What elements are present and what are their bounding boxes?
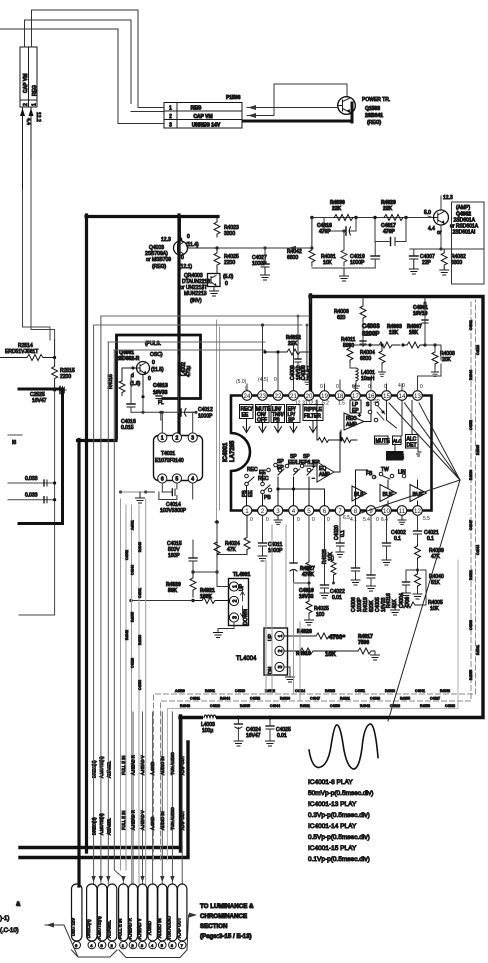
svg-text:A.HEAD V: A.HEAD V [137,918,142,939]
svg-text:1000P: 1000P [198,414,213,420]
wire connector to P1506 row2 (CAP VM) [25,20,132,104]
svg-text:SP: SP [373,399,380,405]
resistor R4016 (rotated) [386,593,398,608]
svg-text:0: 0 [312,517,315,523]
svg-text:0.1Vp-p(0.5msec.div): 0.1Vp-p(0.5msec.div) [308,856,370,863]
capacitor 0.033 (upper) [8,476,56,486]
IC internal MUTE box [375,436,391,445]
svg-text:0.3Vp-p(0.5msec.div): 0.3Vp-p(0.5msec.div) [308,812,370,819]
label PULSE OSC [116,341,163,362]
svg-text:DREC(H): DREC(H) [92,817,97,835]
svg-text:R4065: R4065 [240,704,250,708]
svg-text:2SD601AI: 2SD601AI [453,230,476,236]
svg-text:A.HEAD R: A.HEAD R [131,755,136,775]
connector pill A.AF OUT [177,884,187,949]
capacitor C4018 470P [317,218,356,236]
coil L4001 [350,368,375,390]
svg-text:R4065: R4065 [476,445,480,455]
svg-text:1.5: 1.5 [338,401,345,407]
wire row1 stub [138,107,164,109]
svg-text:1000P: 1000P [350,260,365,266]
resistor R4019 (rotated) [363,597,375,612]
svg-text:3300: 3300 [224,231,235,237]
svg-text:R4044: R4044 [469,370,473,380]
svg-text:6: 6 [323,508,327,515]
resistor R4011 [341,337,356,368]
svg-text:4: 4 [191,477,194,483]
bracket group1 with left arrow [45,923,117,958]
IC internal REC AMP triangle [344,401,371,431]
svg-text:13: 13 [414,393,421,400]
svg-text:R4036: R4036 [138,635,142,645]
shield net tick labels right column [469,320,480,680]
capacitor C4005 (rotated) [351,516,387,613]
IC internal block REC/EE [240,405,254,433]
svg-text:(11.4): (11.4) [186,242,199,248]
svg-text:ALC: ALC [393,439,402,444]
svg-text:2SB841: 2SB841 [365,113,383,119]
resistor R4025b 100 [305,583,329,625]
wire from CAP VM pin 2 down with arrow [20,107,31,190]
svg-text:2: 2 [233,599,239,602]
svg-text:1000P: 1000P [268,548,283,554]
capacitor C4020 (rotated) [334,516,346,558]
svg-text:AT/ASEL: AT/ASEL [106,920,111,938]
capacitor C4013 [141,375,168,407]
svg-text:(INV): (INV) [190,298,202,304]
IC top pins 24-13 [242,391,422,401]
shield net tick labels row1 [175,689,455,708]
arrowheads into pills [91,876,174,882]
svg-text:C4023: C4023 [476,345,480,355]
svg-text:E1070F0140: E1070F0140 [155,458,184,464]
IC internal switch cluster pins3-5 with SP/EP labels [276,454,324,506]
ground under pin 3 [274,516,282,525]
IC internal ALC box [393,436,402,445]
svg-text:1: 1 [169,106,172,112]
svg-text:EE: EE [248,490,254,497]
ground below QR4003 [210,287,219,297]
resistor R4015 [108,368,133,396]
svg-text:C4047: C4047 [469,520,473,530]
svg-text:REG: REG [32,85,38,96]
svg-text:24: 24 [244,393,251,400]
svg-text:UNREG 14V: UNREG 14V [192,123,221,129]
svg-text:REC: REC [247,467,258,473]
svg-text:1: 1 [233,585,239,588]
svg-text:0: 0 [327,517,330,523]
svg-text:51K: 51K [431,580,441,586]
svg-text:0: 0 [152,360,155,366]
svg-text:R4026: R4026 [297,629,312,635]
svg-text:180P: 180P [168,553,180,559]
svg-text:C4039: C4039 [235,689,245,693]
IC internal EQ AMP triangle [305,432,340,482]
svg-text:C4056: C4056 [330,704,340,708]
svg-text:A.HEAD R: A.HEAD R [128,918,133,939]
filter bottom rail + ground [312,268,375,281]
resistor R2514 [0,340,56,361]
svg-text:I6: I6 [12,440,16,446]
wire from REG pin 1 down with arrow [29,107,42,160]
svg-text:C4031: C4031 [138,588,142,598]
shield dashed boundary (inner gray) [168,560,459,860]
svg-text:A.MUTE(H): A.MUTE(H) [96,916,101,939]
svg-text:FULL E IN: FULL E IN [118,919,123,939]
svg-text:IC4001-13 PLAY: IC4001-13 PLAY [308,801,357,808]
svg-text:C4013: C4013 [153,383,168,389]
svg-text:CAP VM: CAP VM [193,114,212,120]
waveform pointer fan lines [358,403,460,721]
svg-text:R4048: R4048 [180,704,190,708]
resistor R4030 [330,200,358,221]
wire left pair down to R2514 node [23,160,55,340]
svg-text:R4044: R4044 [220,697,230,701]
wire R4021 net to left bus [129,599,193,603]
svg-text:(5.0): (5.0) [223,274,234,280]
waveform sine [309,724,378,769]
svg-text:(11.5): (11.5) [151,367,164,373]
svg-text:C4051: C4051 [355,689,365,693]
svg-text:2: 2 [169,114,172,120]
svg-text:6.4: 6.4 [381,517,388,523]
ground TL4001 pin3 [214,623,235,638]
label QR4003 [180,273,234,304]
svg-text:0: 0 [352,384,355,390]
svg-text:R4033: R4033 [385,689,395,693]
capacitor C4012 [181,407,213,420]
svg-text:10K: 10K [323,260,333,266]
svg-text:15: 15 [383,393,390,400]
svg-text:C4027: C4027 [430,697,440,701]
svg-text:C4023: C4023 [210,704,220,708]
IC internal BUF triangle 3 [410,480,427,506]
svg-text:4 0: 4 0 [398,383,405,389]
svg-text:50mVp-p(0.5msec.div): 50mVp-p(0.5msec.div) [308,790,373,797]
voltage 0 labels above top pins [320,383,423,390]
svg-text:5.2: 5.2 [322,401,329,407]
transistor Q4001 [130,360,164,387]
resistor R4003 [368,324,402,348]
svg-text:A.GND: A.GND [150,762,155,775]
resistor R4008 [432,343,455,376]
label Q4002 voltages [424,210,442,236]
svg-text:20: 20 [306,393,313,400]
svg-text:3300: 3300 [451,260,462,266]
resistor R4025 [214,248,239,270]
svg-text:(1.6): (1.6) [130,381,141,387]
svg-text:3: 3 [169,123,172,129]
svg-text:2200: 2200 [60,374,71,380]
wire signal verticals to shield rows [266,525,300,701]
svg-text:A.GND: A.GND [150,817,155,830]
resistor R4007 [401,324,428,348]
resistor R4005 [391,570,443,615]
IC U IC4001 LA7285 body [223,396,432,511]
svg-text:+: + [358,413,361,419]
svg-text:ERD51VJ561T: ERD51VJ561T [5,349,38,355]
svg-text:C4018: C4018 [390,704,400,708]
svg-text:6: 6 [161,477,164,483]
resistor R4026 [284,629,346,641]
svg-text:C4023: C4023 [131,658,135,668]
svg-text:(AMP): (AMP) [456,205,471,211]
svg-text:IC4001: IC4001 [223,442,229,462]
svg-text:3: 3 [278,665,284,668]
svg-text:R4021: R4021 [340,697,350,701]
thick bus horizontal y216 [86,215,218,218]
capacitor C4019 [350,242,380,269]
connector pill TUN AUDIO [167,884,177,949]
svg-text:C4041: C4041 [415,689,425,693]
svg-text:DOWN: DOWN [243,609,249,625]
wire CAP VM row via loop to transistor top [247,84,347,118]
svg-text:DEC 12V: DEC 12V [71,918,76,936]
capacitor C4007 [409,249,435,274]
resistor R4023 [214,218,239,250]
svg-text:AMP: AMP [346,422,358,428]
svg-text:1: 1 [278,634,284,637]
svg-text:7500: 7500 [358,640,369,646]
svg-text:3: 3 [276,508,280,515]
svg-text:18: 18 [337,393,344,400]
test link TL4004 [236,628,288,675]
capacitor C4002 [382,516,406,566]
wire left edge to P1506 row3 [0,29,164,124]
svg-text:5.0: 5.0 [424,210,431,216]
svg-text:+: + [312,464,315,470]
svg-text:R4036: R4036 [469,470,473,480]
resistor R4009 [415,544,444,572]
svg-text:(.C-10): (.C-10) [0,928,19,934]
svg-text:AT/ASEL: AT/ASEL [107,817,112,835]
resistor R4031 [321,229,347,266]
svg-text:C4033: C4033 [469,620,473,630]
IC internal BUF triangle 2 [380,480,397,506]
svg-text:or: or [437,230,442,236]
svg-text:LA7285: LA7285 [230,440,236,462]
svg-text:C4031: C4031 [190,697,200,701]
connector pill AUDIO IN [157,884,167,949]
svg-text:AUDIO IN: AUDIO IN [160,756,165,775]
digital transistor QR4003 [203,270,220,290]
svg-text:0.01: 0.01 [332,595,342,601]
IC internal block RIPPLE FILTER [303,405,323,433]
svg-text:16V33: 16V33 [153,390,168,396]
IC internal resistor pair to MUTE [317,400,357,443]
bracket group2 with right arrow [119,913,197,958]
thick bus vertical x86 [85,215,88,852]
svg-text:A4031: A4031 [131,520,135,530]
svg-text:0: 0 [336,384,339,390]
wire REG row to transistor base with arrow [247,105,338,110]
capacitor C4015 [167,540,197,572]
IC bottom pin voltages [250,515,430,523]
svg-text:R4052: R4052 [265,689,275,693]
svg-text:5: 5 [176,477,179,483]
svg-text:R4061: R4061 [205,689,215,693]
svg-text:TO LUMINANCE &: TO LUMINANCE & [200,903,254,910]
resistor R4013 under pin1 [215,516,250,555]
resistor R4018 [284,648,352,658]
svg-text:0: 0 [266,517,269,523]
svg-text:(5.0): (5.0) [236,379,247,385]
capacitor C4022 [320,516,345,602]
svg-text:5.5: 5.5 [423,516,430,522]
svg-text:0.01: 0.01 [277,733,287,739]
resistor R4027 [300,516,315,585]
svg-text:11: 11 [399,508,406,515]
svg-text:(REG): (REG) [367,120,382,126]
svg-text:C4044: C4044 [131,565,135,575]
svg-text:)-1): )-1) [0,916,9,922]
svg-text:2: 2 [176,436,179,442]
net tick labels left band [125,520,142,690]
svg-text:5.4: 5.4 [363,517,370,523]
svg-text:(4.5): (4.5) [258,377,269,383]
svg-text:(Page:3-15 / E-13): (Page:3-15 / E-13) [200,933,252,940]
wire bus lines entering from left [94,315,309,351]
svg-text:DET: DET [407,443,417,449]
svg-text:C4038: C4038 [445,704,455,708]
capacitor C4001 [413,298,428,345]
svg-text:A.AF OUT: A.AF OUT [180,755,185,775]
svg-text:R4028: R4028 [325,689,335,693]
svg-text:(12.1): (12.1) [179,264,192,270]
svg-text:22P: 22P [422,260,432,266]
svg-text:8: 8 [354,508,358,515]
capacitor C4009 (rotated label) [290,316,302,380]
svg-text:TUN AUDIO: TUN AUDIO [170,751,175,775]
thick bottom bus lines to left [20,742,188,858]
svg-text:21: 21 [290,393,297,400]
svg-text:AUDIO IN: AUDIO IN [160,811,165,830]
svg-text:2SD602-R: 2SD602-R [116,356,140,362]
wire Q4003 collector to filter input [217,246,314,250]
svg-text:A.HEAD V: A.HEAD V [140,810,145,830]
svg-text:IC4001-8 PLAY: IC4001-8 PLAY [308,779,353,786]
svg-text:SECTION: SECTION [200,923,228,930]
svg-text:0.5Vp-p(0.5msec.div): 0.5Vp-p(0.5msec.div) [308,834,370,841]
resistor R4024 [214,522,240,572]
svg-text:R4053: R4053 [420,704,430,708]
connector pill A.HEAD R [128,884,138,949]
svg-text:0.033: 0.033 [25,476,38,482]
svg-text:C4047: C4047 [310,697,320,701]
svg-text:TL4004: TL4004 [236,656,257,662]
svg-text:470P: 470P [383,229,395,235]
svg-text:0: 0 [148,376,151,382]
svg-text:A.AF OUT: A.AF OUT [177,917,182,938]
svg-text:1: 1 [161,436,164,442]
svg-text:51K: 51K [392,598,398,608]
IC internal MUTE box 2 (inverse) [387,452,405,461]
test link TL4001 [229,572,251,626]
svg-text:0: 0 [225,281,228,287]
wires pins 13-16 up into box [311,296,442,391]
capacitor C4018 0.015 [121,375,136,431]
svg-text:0: 0 [420,384,423,390]
IC internal switch cluster pins1-5 [242,459,284,506]
capacitor C4003 [360,324,380,347]
svg-text:2: 2 [23,103,29,106]
svg-text:C4031: C4031 [469,320,473,330]
svg-text:CAP VM: CAP VM [23,74,29,93]
resistor R4040 [413,570,444,599]
IC internal BUF triangle 1 [352,486,367,501]
IC internal block LP/EP at pin17 [350,400,370,414]
connector pill DEC 12V [71,884,82,949]
capacitor C4008 (rotated label) [301,325,313,384]
svg-text:620: 620 [337,315,346,321]
svg-text:4.4: 4.4 [428,226,435,232]
svg-text:MUTE: MUTE [376,439,391,445]
svg-text:0: 0 [187,234,190,240]
svg-text:56K: 56K [168,588,178,594]
thick wire UNREG to transistor emitter [243,103,352,122]
svg-text:5: 5 [307,508,311,515]
waveform annotation text [308,779,373,863]
wire filter top rail [312,217,434,219]
svg-text:&: & [16,902,21,908]
svg-text:2: 2 [261,508,265,515]
svg-text:14: 14 [399,393,406,400]
connector P1506 [164,95,242,129]
svg-text:0: 0 [320,384,323,390]
svg-text:R4048: R4048 [138,542,142,552]
svg-text:10: 10 [383,508,390,515]
svg-text:47K: 47K [431,554,441,560]
svg-text:FILTER: FILTER [304,414,321,420]
box PULSE OSC (thick) [117,335,201,438]
svg-text:A4020: A4020 [175,689,185,693]
svg-text:0.015: 0.015 [121,425,134,431]
power transistor Q1503 [338,97,356,115]
svg-text:R4031: R4031 [476,645,480,655]
svg-text:R4042: R4042 [360,704,370,708]
svg-text:or MSB709: or MSB709 [146,257,171,263]
svg-text:FULL E IN: FULL E IN [121,756,126,775]
shield dashed boundary (middle) [161,302,472,860]
wire group2 bus verticals to connector [133,712,182,884]
resistor R4029 [381,200,408,221]
svg-text:0: 0 [368,384,371,390]
svg-text:23: 23 [259,393,266,400]
capacitor C4010 [290,516,314,601]
connector pill AT/ASEL [106,884,116,949]
capacitor C4027 [252,246,270,280]
svg-text:0: 0 [376,517,379,523]
wire connector to P1506 row1 (REG) [32,10,139,108]
capacitor C4014 [119,483,193,514]
svg-text:BUF: BUF [354,492,366,498]
IC internal block LIN/TNR/PB [271,405,285,433]
svg-text:25V47: 25V47 [307,365,313,380]
svg-text:3: 3 [233,616,239,619]
gray bus verticals mid-left [121,499,146,884]
svg-text:0: 0 [274,377,277,383]
svg-text:C4033: C4033 [370,697,380,701]
svg-text:12K: 12K [389,330,399,336]
svg-text:5600: 5600 [343,343,354,349]
resistor R4017 [352,634,380,660]
svg-text:AUDIO IN: AUDIO IN [157,918,162,938]
svg-text:0.1: 0.1 [394,536,401,542]
svg-text:C4044: C4044 [476,545,480,555]
svg-text:A.MUTE(H): A.MUTE(H) [99,756,104,778]
svg-text:PB: PB [264,495,271,501]
label AMP Q4002 [450,205,479,236]
